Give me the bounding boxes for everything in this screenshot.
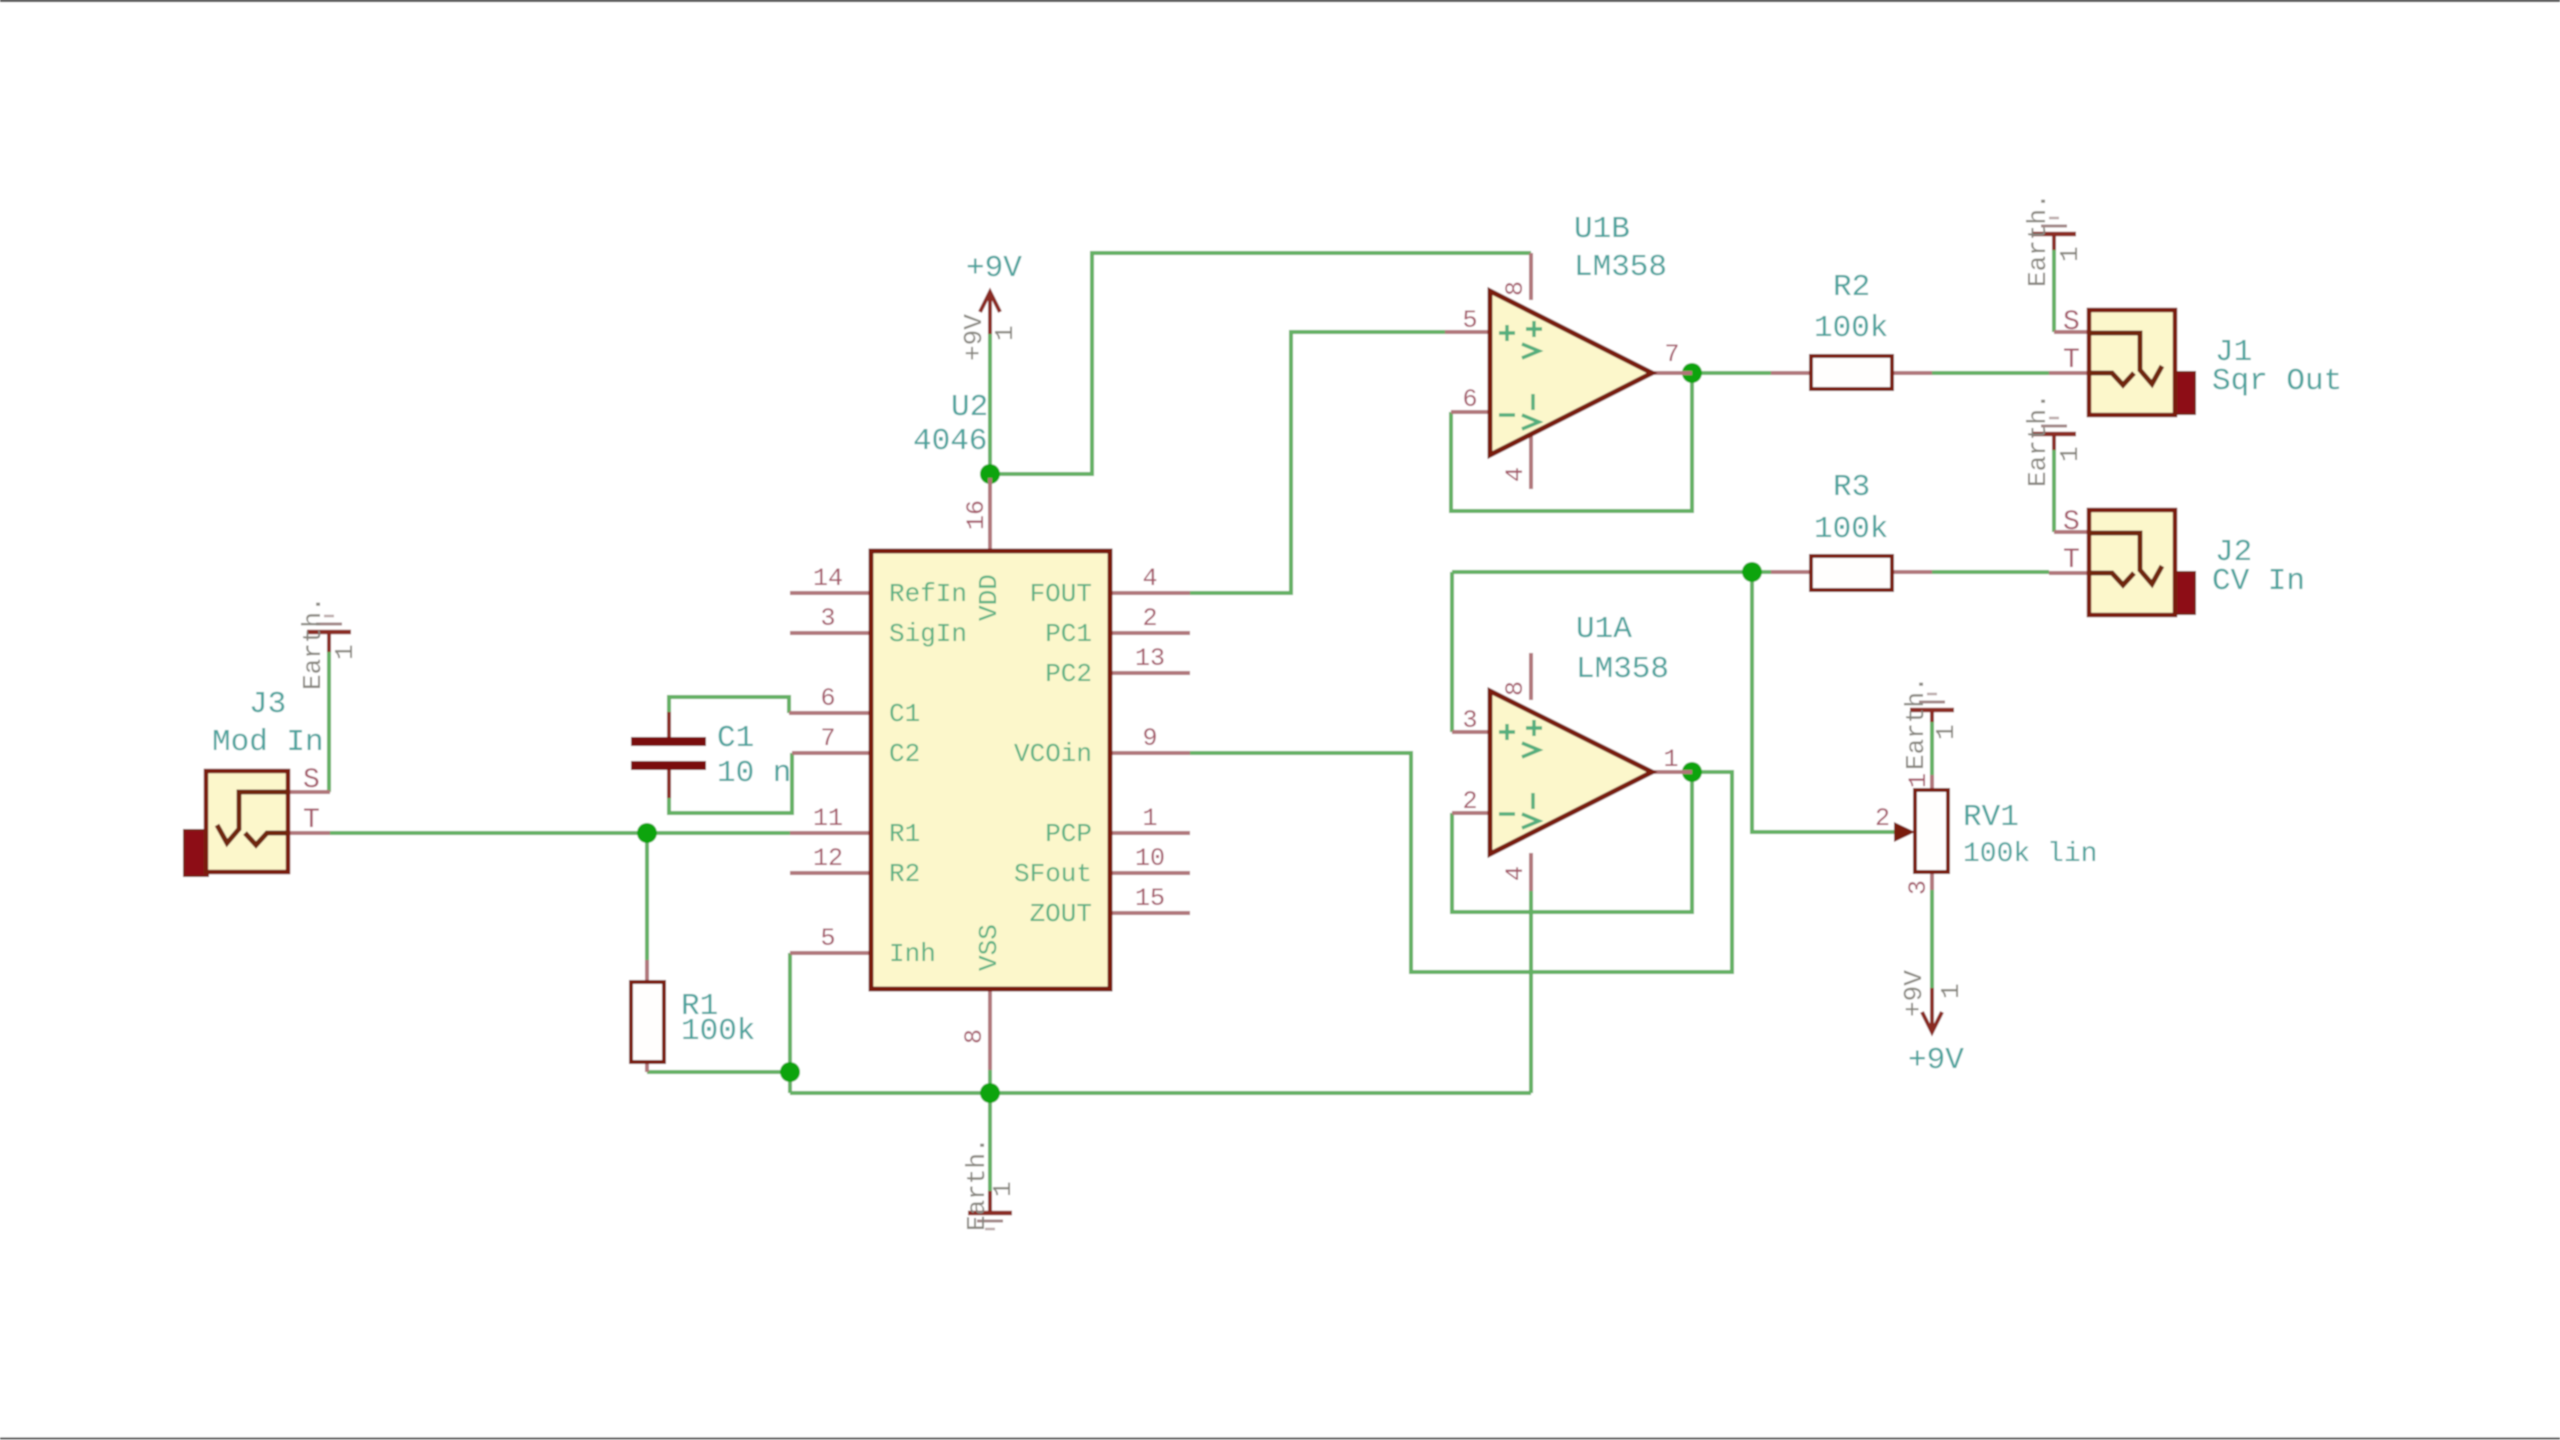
- svg-text:2: 2: [1142, 604, 1157, 633]
- svg-text:1: 1: [988, 1181, 1018, 1197]
- svg-text:5: 5: [1462, 306, 1477, 335]
- svg-text:U2: U2: [951, 390, 988, 425]
- svg-text:11: 11: [813, 804, 843, 833]
- svg-text:RefIn: RefIn: [889, 579, 967, 609]
- svg-text:2: 2: [1462, 787, 1477, 816]
- svg-text:9: 9: [1142, 724, 1157, 753]
- svg-text:3: 3: [820, 604, 835, 633]
- svg-text:14: 14: [813, 564, 843, 593]
- svg-text:3: 3: [1904, 880, 1933, 895]
- svg-text:1: 1: [1904, 773, 1933, 788]
- svg-text:12: 12: [813, 844, 843, 873]
- svg-text:4: 4: [1501, 866, 1530, 881]
- svg-text:100k: 100k: [1814, 512, 1888, 547]
- svg-text:+9V: +9V: [1899, 970, 1929, 1017]
- svg-text:Inh: Inh: [889, 939, 936, 969]
- svg-text:C2: C2: [889, 739, 920, 769]
- svg-text:PCP: PCP: [1045, 819, 1092, 849]
- svg-text:1: 1: [1936, 983, 1966, 999]
- svg-text:Earth.: Earth.: [2023, 193, 2053, 287]
- svg-text:U1B: U1B: [1574, 212, 1630, 247]
- svg-text:1: 1: [990, 325, 1020, 341]
- svg-text:S: S: [2063, 307, 2080, 338]
- svg-text:LM358: LM358: [1576, 652, 1669, 687]
- svg-text:100k: 100k: [681, 1014, 755, 1049]
- svg-text:4: 4: [1501, 467, 1530, 482]
- svg-text:J3: J3: [249, 687, 286, 722]
- svg-text:VCOin: VCOin: [1014, 739, 1092, 769]
- svg-text:U1A: U1A: [1576, 612, 1632, 647]
- svg-text:1: 1: [330, 644, 360, 660]
- svg-text:C1: C1: [717, 721, 754, 756]
- svg-text:10: 10: [1135, 844, 1165, 873]
- svg-text:T: T: [303, 805, 320, 836]
- svg-text:SFout: SFout: [1014, 859, 1092, 889]
- svg-text:4: 4: [1142, 564, 1157, 593]
- svg-text:3: 3: [1462, 706, 1477, 735]
- svg-text:5: 5: [820, 924, 835, 953]
- svg-text:Earth.: Earth.: [1901, 676, 1931, 770]
- svg-text:8: 8: [1501, 281, 1530, 296]
- svg-text:+9V: +9V: [966, 251, 1022, 286]
- svg-text:Mod In: Mod In: [212, 725, 324, 760]
- svg-text:R3: R3: [1833, 470, 1870, 505]
- svg-text:7: 7: [820, 724, 835, 753]
- svg-text:VSS: VSS: [974, 924, 1004, 971]
- svg-text:Sqr Out: Sqr Out: [2212, 364, 2342, 399]
- svg-text:8: 8: [960, 1029, 989, 1044]
- svg-text:PC1: PC1: [1045, 619, 1092, 649]
- svg-text:13: 13: [1135, 644, 1165, 673]
- svg-text:6: 6: [1462, 385, 1477, 414]
- svg-text:C1: C1: [889, 699, 920, 729]
- svg-text:6: 6: [820, 684, 835, 713]
- svg-text:LM358: LM358: [1574, 250, 1667, 285]
- svg-text:8: 8: [1501, 681, 1530, 696]
- svg-text:16: 16: [962, 500, 991, 530]
- svg-text:1: 1: [1663, 745, 1678, 774]
- svg-text:1: 1: [1931, 724, 1961, 740]
- svg-text:PC2: PC2: [1045, 659, 1092, 689]
- svg-text:1: 1: [1142, 804, 1157, 833]
- svg-text:+9V: +9V: [959, 314, 989, 361]
- svg-text:R2: R2: [889, 859, 920, 889]
- svg-text:2: 2: [1875, 804, 1890, 833]
- svg-text:4046: 4046: [913, 424, 987, 459]
- svg-text:100k: 100k: [1814, 311, 1888, 346]
- svg-text:RV1: RV1: [1963, 800, 2019, 835]
- svg-text:15: 15: [1135, 884, 1165, 913]
- svg-text:SigIn: SigIn: [889, 619, 967, 649]
- svg-text:T: T: [2063, 345, 2080, 376]
- svg-text:1: 1: [2055, 246, 2085, 262]
- svg-text:FOUT: FOUT: [1030, 579, 1092, 609]
- svg-text:VDD: VDD: [974, 574, 1004, 621]
- svg-text:T: T: [2063, 545, 2080, 576]
- svg-text:1: 1: [2055, 446, 2085, 462]
- svg-text:Earth.: Earth.: [298, 596, 328, 690]
- svg-text:7: 7: [1664, 340, 1679, 369]
- svg-text:S: S: [2063, 507, 2080, 538]
- svg-text:S: S: [303, 765, 320, 796]
- svg-text:10 n: 10 n: [717, 756, 791, 791]
- svg-text:R1: R1: [889, 819, 920, 849]
- svg-text:ZOUT: ZOUT: [1030, 899, 1092, 929]
- svg-text:+9V: +9V: [1908, 1043, 1964, 1078]
- svg-text:R2: R2: [1833, 270, 1870, 305]
- svg-text:CV In: CV In: [2212, 564, 2305, 599]
- svg-text:100k lin: 100k lin: [1963, 839, 2097, 870]
- svg-text:Earth.: Earth.: [2023, 393, 2053, 487]
